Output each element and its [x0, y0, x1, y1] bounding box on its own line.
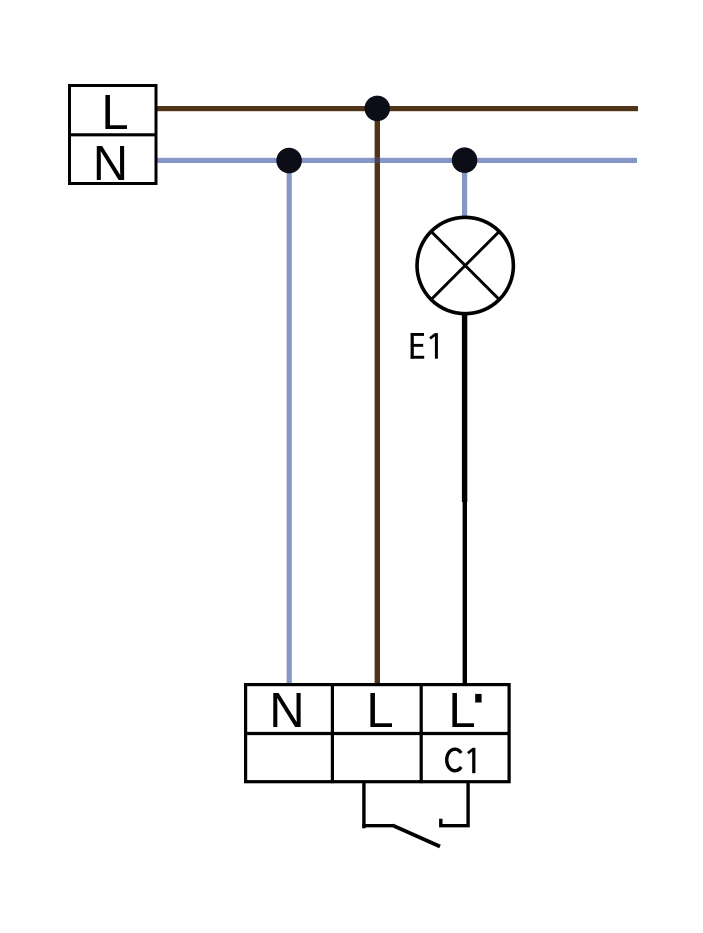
- wire crossing blend: [375, 158, 380, 163]
- wire L brown horizontal: [157, 106, 638, 111]
- svg-text:N: N: [269, 684, 304, 738]
- wire black lamp to terminal L' upper: [462, 313, 467, 502]
- switch right lead: [441, 783, 468, 826]
- switch contact C1: [362, 783, 468, 847]
- lamp E1 circle: [417, 217, 513, 313]
- svg-text:N: N: [93, 137, 128, 191]
- wire blue stub to lamp E1: [462, 159, 467, 219]
- svg-text:L: L: [366, 684, 393, 738]
- svg-text:L: L: [448, 684, 475, 738]
- switch left lead: [362, 783, 365, 828]
- supply terminal box L/N: [68, 86, 157, 192]
- relay terminal block: [244, 683, 511, 783]
- wire black lamp to terminal L' lower: [463, 502, 467, 683]
- wire L brown vertical: [375, 106, 380, 683]
- wire N blue vertical to terminal N: [287, 160, 292, 683]
- svg-text:L: L: [101, 86, 128, 140]
- node junction dot on N wire right: [452, 147, 478, 173]
- node junction dot on L wire: [365, 96, 391, 122]
- node junction dot on N wire left: [276, 148, 302, 174]
- wire N blue horizontal: [157, 158, 637, 163]
- terminal label C1: [447, 748, 476, 773]
- lamp E1 cross: [431, 231, 499, 299]
- label E1: [411, 333, 438, 359]
- switch blade: [393, 825, 441, 846]
